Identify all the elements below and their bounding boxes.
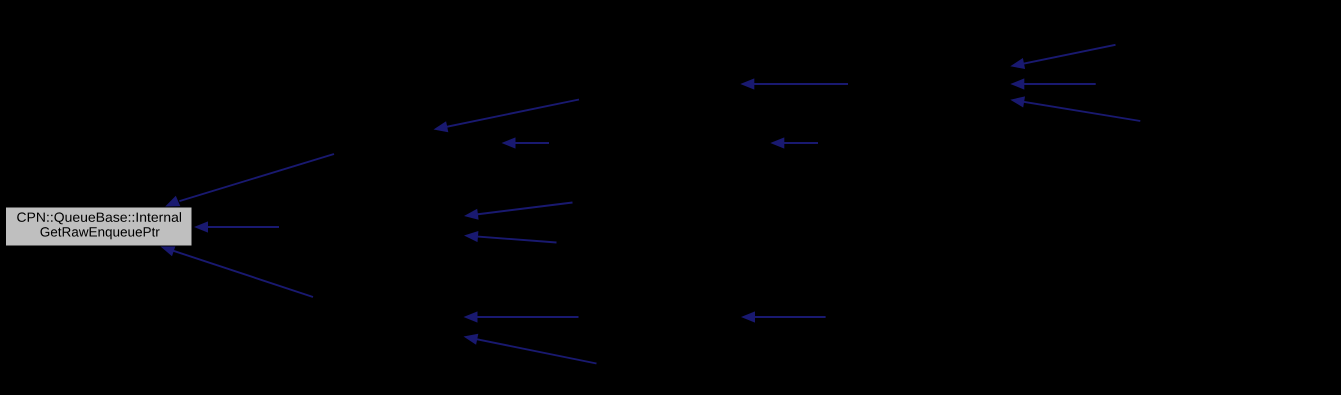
caller edge arrow D2 [1010,78,1095,89]
caller edge arrow A3 [161,246,314,297]
caller edge arrow A1 [165,154,334,207]
caller edge arrow C1 [740,78,848,89]
caller edge arrow B2 [502,137,550,148]
node label line 1: CPN::QueueBase::Internal [17,212,181,224]
caller edge arrow B1 [434,100,580,133]
caller edge arrow B3 [464,203,573,220]
caller edge arrow D3 [1010,96,1140,121]
caller edge arrow C3 [741,311,826,322]
main node box CPN::QueueBase::InternalGetRawEnqueuePtr [6,207,193,246]
caller edge arrow D1 [1010,45,1115,69]
caller edge arrow B4 [464,231,557,243]
caller edge arrow A2 [194,221,279,232]
node label line 2: GetRawEnqueuePtr [41,227,160,239]
caller edge arrow B5 [464,311,579,322]
caller edge arrow B6 [464,334,597,364]
caller edge arrow C2 [770,137,818,148]
